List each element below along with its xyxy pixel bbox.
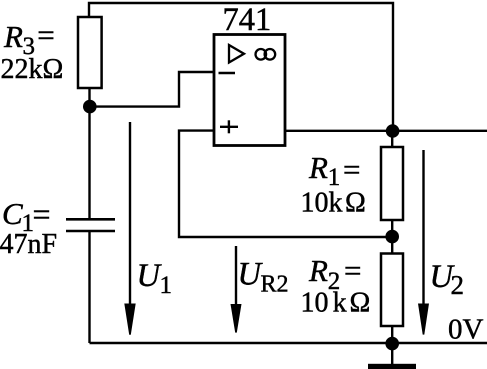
op-amp U1 741 box (214, 35, 285, 146)
label U1 (137, 258, 173, 299)
svg-text:=: = (37, 18, 54, 53)
op-amp plus input label (220, 120, 238, 133)
svg-text:R2: R2 (261, 272, 289, 298)
arrow U1 (124, 122, 135, 335)
svg-text:C: C (2, 196, 23, 231)
svg-text:Ω: Ω (345, 188, 366, 219)
label R1 = 10kOhm (301, 150, 366, 219)
svg-text:k: k (333, 288, 347, 319)
wire op-amp output to right edge (285, 130, 487, 132)
wire op-amp noninverting input feedback to R1/R2 node (179, 131, 392, 237)
ground node dot (385, 337, 399, 351)
wire R2 bottom to ground node (391, 326, 393, 344)
node R1/R2 junction dot (385, 230, 399, 244)
ground symbol (368, 344, 416, 369)
resistor R3 (78, 17, 102, 88)
wire top rail from R3 top to output drop (89, 3, 393, 131)
op-amp triangle symbol (229, 45, 244, 63)
wire bottom 0V rail (90, 342, 487, 344)
label UR2 (238, 257, 289, 298)
label 0V (448, 314, 484, 346)
svg-text:1: 1 (160, 272, 173, 299)
label C1 = 47nF (0, 196, 57, 260)
svg-text:R: R (3, 19, 23, 54)
arrow UR2 (231, 246, 242, 333)
node A junction dot (83, 100, 97, 114)
svg-text:22kΩ: 22kΩ (1, 54, 64, 85)
label 741 (223, 2, 272, 38)
svg-text:R: R (308, 150, 328, 185)
wire R3 bottom down through node to C1 (88, 88, 90, 219)
wire node A to op-amp inverting input (90, 72, 214, 107)
op-amp infinity symbol (255, 49, 275, 60)
label R3 = 22kOhm (1, 18, 64, 86)
svg-text:0V: 0V (448, 314, 484, 346)
output node dot (386, 124, 400, 138)
wire C1 bottom to ground rail (88, 231, 90, 343)
capacitor C1 (66, 219, 115, 231)
resistor R1 (381, 147, 403, 220)
svg-text:10: 10 (301, 288, 329, 319)
svg-text:=: = (343, 152, 360, 187)
wire output node to R1 top (391, 131, 393, 147)
svg-text:R: R (308, 253, 328, 288)
svg-text:10k: 10k (301, 188, 343, 219)
svg-text:741: 741 (223, 2, 272, 38)
label U2 (430, 259, 465, 300)
label R2 = 10kOhm (301, 253, 371, 319)
svg-text:47nF: 47nF (0, 229, 57, 260)
resistor R2 (381, 254, 403, 327)
svg-text:=: = (33, 196, 51, 232)
svg-text:Ω: Ω (350, 288, 371, 319)
op-amp minus input label (219, 72, 236, 75)
svg-text:2: 2 (451, 270, 465, 300)
arrow U2 (418, 150, 429, 335)
wire R1 bottom through node to R2 top (391, 220, 393, 254)
svg-text:=: = (344, 253, 361, 288)
